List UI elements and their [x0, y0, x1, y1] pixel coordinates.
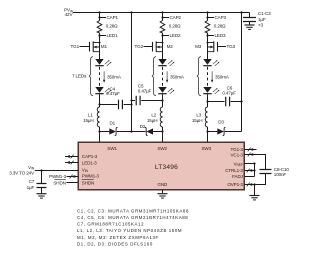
wire VC1-3 to C8-C10 [245, 155, 266, 170]
svg-text:C7: C7 [29, 179, 35, 184]
svg-text:100nF: 100nF [274, 172, 287, 177]
LED string branch3 bottom LED [203, 87, 219, 94]
svg-text:CAP2: CAP2 [170, 15, 182, 20]
junction dots branch3 [206, 11, 208, 13]
LED string branch1 top LED [95, 59, 111, 66]
svg-text:L1, L2, L3: TAIYO YUDEN NP04SZ: L1, L2, L3: TAIYO YUDEN NP04SZB 150M [77, 228, 182, 233]
junction dots branch2 [161, 11, 163, 13]
svg-text:3.3V TO 24V: 3.3V TO 24V [9, 171, 35, 176]
svg-text:42V: 42V [65, 12, 74, 17]
svg-text:CAP3: CAP3 [215, 15, 227, 20]
svg-text:L2: L2 [151, 113, 156, 118]
ground (IC GND pin) [162, 190, 164, 193]
capacitor C1-C3 [249, 13, 251, 18]
svg-text:0.47µF: 0.47µF [138, 89, 152, 94]
wire TG1 gate [80, 46, 90, 48]
svg-text:SW1: SW1 [107, 146, 117, 151]
wire dashed LED string branch1 [99, 67, 101, 86]
svg-text:0.28Ω: 0.28Ω [214, 24, 226, 29]
ground (C1-C3) [245, 25, 255, 29]
wire OVP1-3 to ground [245, 185, 255, 196]
svg-text:CTRL1-3: CTRL1-3 [225, 168, 243, 173]
wire TG2 gate [144, 46, 153, 48]
wire branch1 stem upper [99, 13, 101, 21]
svg-text:C5: C5 [138, 83, 144, 88]
ground (C7) [37, 194, 47, 198]
svg-text:15µH: 15µH [192, 118, 202, 123]
wire VREF tie [245, 164, 255, 177]
node CAP1 stub [100, 17, 107, 19]
inductor L2 15uH [160, 107, 162, 127]
svg-text:350mA: 350mA [170, 74, 185, 79]
svg-text:VC1-3: VC1-3 [231, 153, 244, 158]
LED string branch3 top LED [203, 59, 219, 66]
wire branch2 stem mid [162, 33, 164, 59]
svg-text:0.47µF: 0.47µF [106, 91, 120, 96]
svg-text:OVP1-3: OVP1-3 [227, 182, 243, 187]
capacitor C4 0.47uF [100, 104, 132, 106]
wire dashed LED string branch2 [162, 67, 164, 86]
svg-text:TG1: TG1 [71, 44, 80, 49]
svg-text:SW3: SW3 [202, 146, 212, 151]
svg-text:×3: ×3 [258, 22, 264, 27]
capacitor C5 0.47uF [132, 100, 163, 102]
LED string branch2 top LED [158, 59, 174, 66]
wire dashed LED string branch3 [207, 67, 209, 86]
brace LEDs branch2 [152, 57, 156, 96]
wire LED1-3 pin stub [65, 162, 78, 164]
svg-text:TG1-3: TG1-3 [231, 147, 244, 152]
svg-text:7 LEDs: 7 LEDs [72, 74, 87, 79]
svg-text:D2: D2 [140, 124, 146, 129]
svg-text:GND: GND [157, 182, 168, 187]
wire feed column 2 (PVIN) [241, 13, 243, 132]
wire feed column 1 (PVIN) [131, 13, 133, 132]
svg-text:D1, D2, D3: DIODES DFLS160: D1, D2, D3: DIODES DFLS160 [77, 241, 153, 246]
svg-text:FADJ: FADJ [232, 174, 243, 179]
resistor R2 0.28ohm [160, 21, 165, 34]
transistor M3 (mirrored) [208, 41, 218, 52]
inductor L1 15uH [97, 107, 99, 127]
svg-text:CAP1-3: CAP1-3 [82, 154, 98, 159]
diode D2 [132, 131, 163, 133]
wire TG1-3 pin stub [245, 149, 257, 151]
current arrow 350mA branch1 [103, 71, 105, 82]
svg-text:LT3496: LT3496 [155, 164, 178, 171]
capacitor C7 1uF [41, 171, 43, 184]
svg-text:350mA: 350mA [215, 74, 230, 79]
capacitor C6 0.47uF [208, 101, 242, 103]
svg-text:TG2: TG2 [135, 44, 144, 49]
resistor R1 0.28ohm [97, 21, 102, 34]
IC U1 LT3496 [78, 142, 244, 190]
brace 7 LEDs branch1 [89, 57, 93, 96]
node LED1 stub [100, 35, 107, 37]
inductor L3 15uH [205, 107, 207, 127]
node LED2 stub [163, 35, 170, 37]
wire branch1 stem to SW1 [99, 127, 101, 143]
transistor M2 [153, 41, 163, 52]
wire PVIN top rail [73, 12, 250, 14]
svg-text:PWM1-3: PWM1-3 [82, 174, 100, 179]
resistor R3 0.28ohm [205, 21, 210, 34]
svg-text:C7, GRM188R71C105KA12: C7, GRM188R71C105KA12 [77, 222, 144, 227]
wire branch2 stem to SW2 [162, 127, 164, 143]
svg-text:1µF: 1µF [258, 17, 266, 22]
wire TG3 gate [218, 46, 226, 48]
svg-text:SHDN: SHDN [82, 181, 94, 186]
diode D3 [208, 131, 242, 133]
svg-text:L3: L3 [196, 113, 201, 118]
svg-text:LED3: LED3 [215, 33, 226, 38]
svg-text:0.28Ω: 0.28Ω [169, 24, 181, 29]
svg-text:15µH: 15µH [83, 118, 93, 123]
ground (OVP/C8-C10) [250, 196, 260, 200]
svg-text:350mA: 350mA [107, 74, 122, 79]
wire CAP1-3 pin stub [65, 156, 78, 158]
node CAP2 stub [163, 17, 170, 19]
wire branch1 stem below LEDs [99, 94, 101, 107]
node LED3 stub [208, 35, 215, 37]
wire branch2 stem upper [162, 13, 164, 21]
LED string branch2 bottom LED [158, 87, 174, 94]
wire branch3 stem below LEDs [207, 94, 209, 107]
svg-text:PWM1-3: PWM1-3 [49, 174, 67, 179]
wire CTRL1-3 pin [245, 170, 255, 172]
LED string branch1 bottom LED [95, 87, 111, 94]
svg-text:15µH: 15µH [147, 118, 157, 123]
svg-text:C4, C5, C6: MURATA GRM21BR71H4: C4, C5, C6: MURATA GRM21BR71H474KA88 [77, 215, 188, 220]
svg-text:C1-C3: C1-C3 [258, 11, 271, 16]
svg-text:CAP1: CAP1 [107, 15, 119, 20]
svg-text:D3: D3 [218, 119, 224, 124]
svg-text:1µF: 1µF [27, 185, 35, 190]
node CAP3 stub [208, 17, 215, 19]
svg-text:0.28Ω: 0.28Ω [106, 24, 118, 29]
svg-text:C1, C2, C3: MURATA GRM31MR71H1: C1, C2, C3: MURATA GRM31MR71H105KA88 [77, 208, 189, 213]
brace LEDs branch3 [197, 57, 201, 96]
transistor M1 [90, 41, 100, 52]
svg-text:M2: M2 [167, 44, 174, 49]
svg-text:M3: M3 [195, 44, 202, 49]
capacitor C8-C10 100nF [260, 170, 272, 174]
svg-text:SHDN: SHDN [53, 180, 65, 185]
svg-text:LED2: LED2 [170, 33, 181, 38]
svg-text:M1, M2, M3: ZETEX ZXMP6A13F: M1, M2, M3: ZETEX ZXMP6A13F [77, 235, 159, 240]
svg-text:TG3: TG3 [227, 44, 236, 49]
svg-text:L1: L1 [88, 113, 93, 118]
wire branch3 stem to SW3 [207, 127, 209, 143]
svg-text:0.47µF: 0.47µF [222, 90, 236, 95]
current arrow 350mA branch2 [166, 71, 168, 82]
current arrow 350mA branch3 [211, 71, 213, 82]
svg-text:SW2: SW2 [157, 146, 167, 151]
junction dots branch1/feed1 [98, 11, 100, 13]
svg-text:M1: M1 [101, 44, 108, 49]
wire branch3 stem mid [207, 33, 209, 59]
wire FADJ tie [245, 176, 255, 178]
wire branch1 stem mid [99, 33, 101, 59]
svg-text:D1: D1 [110, 121, 116, 126]
wire branch2 stem below LEDs [162, 94, 164, 107]
wire VIN to IC [35, 170, 78, 172]
svg-text:LED1: LED1 [107, 33, 118, 38]
diode D1 [100, 131, 132, 133]
wire branch3 stem upper [207, 13, 209, 21]
svg-text:LED1-3: LED1-3 [82, 160, 97, 165]
